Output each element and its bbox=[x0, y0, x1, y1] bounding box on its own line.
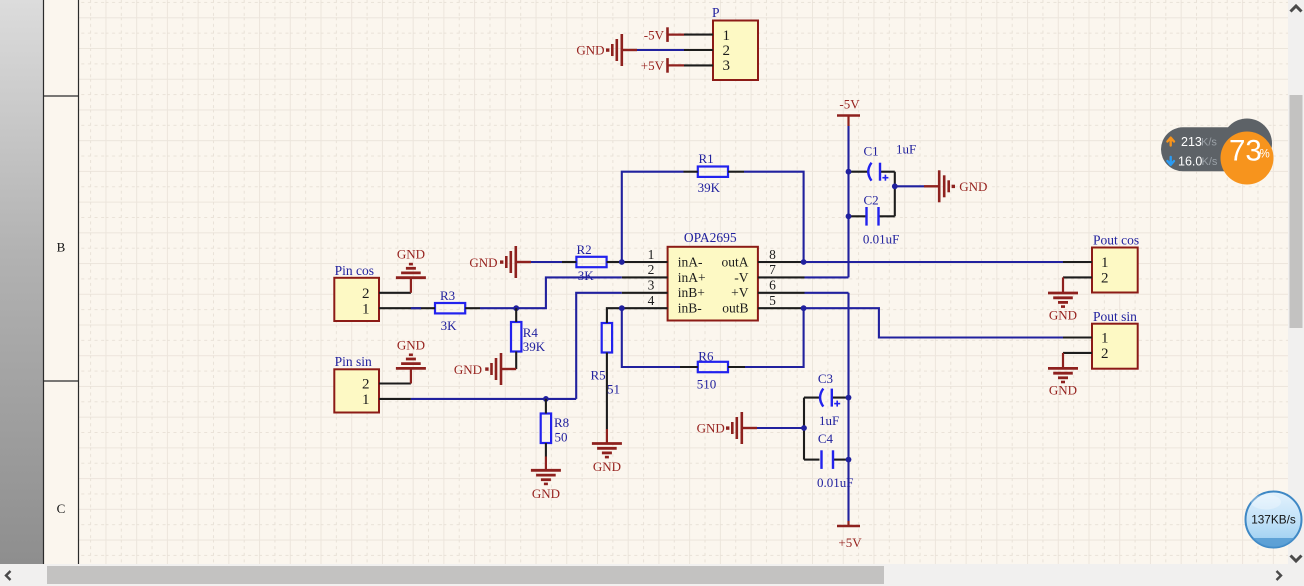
svg-text:-V: -V bbox=[734, 270, 748, 285]
junction outA node bbox=[801, 259, 807, 265]
svg-text:51: 51 bbox=[607, 382, 620, 397]
svg-text:Pout cos: Pout cos bbox=[1093, 233, 1139, 248]
op-amp U1 OPA2695 body bbox=[668, 247, 758, 321]
power -5V (connector P pin 1) bbox=[666, 27, 669, 42]
svg-text:R5: R5 bbox=[591, 367, 606, 382]
svg-text:3: 3 bbox=[723, 58, 731, 74]
svg-text:50: 50 bbox=[555, 429, 568, 444]
svg-text:inA+: inA+ bbox=[678, 270, 706, 285]
horizontal scrollbar bbox=[0, 564, 1304, 586]
svg-text:2: 2 bbox=[648, 262, 655, 277]
pill upload row bbox=[1167, 138, 1174, 146]
svg-text:137KB/s: 137KB/s bbox=[1251, 513, 1296, 527]
op-amp U1 right pin leads bbox=[758, 261, 804, 263]
power +5V (connector P pin 3) bbox=[666, 58, 669, 73]
wire -V to -5V rail bbox=[805, 126, 849, 277]
Pout cos pin leads bbox=[1063, 261, 1092, 263]
svg-text:6: 6 bbox=[769, 278, 776, 293]
junction C1/C2 gnd bbox=[892, 183, 898, 189]
junction outB node bbox=[801, 305, 807, 311]
svg-text:3: 3 bbox=[648, 278, 655, 293]
svg-text:1: 1 bbox=[1101, 255, 1109, 271]
svg-text:213: 213 bbox=[1181, 135, 1202, 149]
svg-text:+5V: +5V bbox=[641, 58, 665, 73]
svg-text:R4: R4 bbox=[523, 325, 539, 340]
svg-text:GND: GND bbox=[532, 486, 560, 501]
svg-text:-5V: -5V bbox=[644, 27, 665, 42]
svg-text:2: 2 bbox=[362, 286, 370, 302]
svg-text:OPA2695: OPA2695 bbox=[684, 230, 737, 245]
svg-text:GND: GND bbox=[593, 459, 621, 474]
svg-text:P: P bbox=[712, 5, 720, 20]
ground GND below Pout cos bbox=[1062, 277, 1064, 293]
svg-text:GND: GND bbox=[576, 43, 604, 58]
ground GND above Pin cos bbox=[410, 278, 412, 293]
svg-text:GND: GND bbox=[697, 421, 725, 436]
svg-text:1uF: 1uF bbox=[819, 413, 839, 428]
svg-text:C1: C1 bbox=[864, 143, 879, 158]
capacitor C3 bbox=[804, 397, 821, 399]
resistor R3 bbox=[435, 303, 465, 313]
Pout sin pin leads bbox=[1063, 336, 1092, 338]
svg-text:inA-: inA- bbox=[678, 254, 703, 269]
svg-text:16.0: 16.0 bbox=[1178, 155, 1202, 169]
svg-text:-5V: -5V bbox=[839, 97, 860, 112]
wire +V to +5V rail bbox=[805, 293, 849, 521]
pill download row bbox=[1167, 157, 1174, 165]
ground GND at R4 bbox=[501, 368, 516, 370]
svg-text:GND: GND bbox=[454, 362, 482, 377]
Pin cos pin leads bbox=[379, 292, 411, 294]
svg-text:Pin sin: Pin sin bbox=[335, 354, 372, 369]
capacitor C4 bbox=[803, 398, 805, 428]
sheet border bbox=[43, 0, 45, 564]
cpu percent orange circle 73% bbox=[1221, 132, 1274, 185]
svg-text:1: 1 bbox=[362, 392, 370, 408]
svg-text:1: 1 bbox=[1101, 331, 1109, 347]
wire GND to R2 bbox=[531, 261, 562, 263]
svg-text:outA: outA bbox=[722, 254, 749, 269]
svg-text:GND: GND bbox=[1049, 383, 1077, 398]
svg-text:R8: R8 bbox=[554, 415, 569, 430]
ground GND at C1/C2 bbox=[924, 185, 939, 187]
wire R6 to outB bbox=[745, 308, 804, 367]
network speed pill widget bbox=[1161, 127, 1249, 171]
download speed blue ball 137KB/s bbox=[1246, 492, 1302, 548]
junction C3/C4 gnd bbox=[801, 425, 807, 431]
svg-text:2: 2 bbox=[1101, 270, 1109, 286]
svg-text:39K: 39K bbox=[698, 180, 721, 195]
junction C1 rail bbox=[846, 169, 852, 175]
ground GND below R8 bbox=[545, 457, 547, 471]
svg-text:inB-: inB- bbox=[678, 301, 703, 316]
wire inA- to R1 left bbox=[622, 172, 684, 262]
svg-text:2: 2 bbox=[1101, 346, 1109, 362]
svg-text:510: 510 bbox=[697, 377, 717, 392]
wire caps to GND bbox=[895, 185, 924, 187]
svg-text:GND: GND bbox=[397, 338, 425, 353]
svg-text:1: 1 bbox=[362, 301, 370, 317]
resistor R5 bbox=[602, 323, 612, 353]
svg-text:GND: GND bbox=[1049, 307, 1077, 322]
svg-text:%: % bbox=[1260, 149, 1270, 161]
Pin sin pin leads bbox=[379, 382, 411, 384]
ground GND below Pout sin bbox=[1062, 353, 1064, 369]
svg-text:7: 7 bbox=[769, 262, 776, 277]
connector Pin sin bbox=[334, 369, 379, 412]
junction R8 node bbox=[543, 396, 549, 402]
svg-text:3K: 3K bbox=[441, 318, 458, 333]
vertical scrollbar bbox=[1288, 0, 1304, 564]
svg-text:GND: GND bbox=[397, 247, 425, 262]
svg-text:73: 73 bbox=[1229, 135, 1262, 168]
svg-text:4: 4 bbox=[648, 293, 655, 308]
svg-text:outB: outB bbox=[722, 301, 748, 316]
ground GND at R2 bbox=[516, 261, 531, 263]
wire Pin cos pin1 to R3 bbox=[411, 307, 421, 309]
svg-text:3K: 3K bbox=[578, 268, 595, 283]
svg-text:1uF: 1uF bbox=[896, 141, 916, 156]
power -5V (rail) bbox=[837, 114, 860, 117]
svg-text:R3: R3 bbox=[440, 288, 455, 303]
capacitor C2 bbox=[849, 215, 867, 217]
junction inA- node bbox=[619, 259, 625, 265]
svg-text:Pout sin: Pout sin bbox=[1093, 309, 1137, 324]
resistor R2 bbox=[576, 257, 606, 267]
svg-text:+V: +V bbox=[731, 285, 749, 300]
svg-text:C3: C3 bbox=[818, 371, 833, 386]
svg-text:R2: R2 bbox=[577, 242, 592, 257]
wire outB to Pout sin bbox=[804, 308, 1063, 337]
svg-text:R1: R1 bbox=[699, 151, 714, 166]
connector P bbox=[713, 21, 758, 81]
svg-text:C2: C2 bbox=[864, 192, 879, 207]
capacitor C1 bbox=[849, 171, 870, 173]
svg-text:5: 5 bbox=[769, 293, 776, 308]
wire outA to Pout cos bbox=[804, 261, 1063, 263]
connector Pin cos bbox=[334, 278, 379, 321]
ground GND (connector P pin 2) bbox=[622, 49, 637, 51]
resistor R6 bbox=[698, 362, 728, 372]
junction C3 rail bbox=[846, 395, 852, 401]
wire inB- to R6 bbox=[622, 308, 680, 367]
svg-text:2: 2 bbox=[723, 43, 731, 59]
op-amp U1 left pin leads bbox=[622, 261, 668, 263]
wire node to inA+ bbox=[516, 277, 622, 308]
svg-text:+5V: +5V bbox=[838, 535, 862, 550]
svg-text:8: 8 bbox=[769, 247, 776, 262]
svg-text:C: C bbox=[57, 501, 66, 516]
svg-text:1: 1 bbox=[723, 28, 731, 44]
svg-text:inB+: inB+ bbox=[678, 285, 705, 300]
wire R3 to node bbox=[480, 307, 516, 309]
wire GND to P pin 2 bbox=[637, 49, 684, 51]
svg-text:39K: 39K bbox=[523, 339, 546, 354]
svg-text:GND: GND bbox=[959, 179, 987, 194]
svg-text:K/s: K/s bbox=[1202, 156, 1218, 168]
svg-text:R6: R6 bbox=[698, 348, 714, 363]
ground GND above Pin sin bbox=[410, 368, 412, 383]
wire C3/C4 to GND bbox=[757, 427, 804, 429]
junction C2 rail bbox=[846, 213, 852, 219]
svg-text:1: 1 bbox=[648, 247, 655, 262]
junction C4 rail bbox=[846, 457, 852, 463]
svg-text:K/s: K/s bbox=[1201, 137, 1217, 149]
resistor R4 bbox=[511, 322, 521, 352]
svg-text:0.01uF: 0.01uF bbox=[863, 232, 899, 247]
ground GND at C3/C4 bbox=[742, 427, 757, 429]
svg-text:Pin cos: Pin cos bbox=[335, 263, 374, 278]
junction R3/R4 node bbox=[513, 305, 519, 311]
connector Pout sin bbox=[1092, 324, 1138, 369]
wire Pin sin pin1 to inB+ bbox=[411, 293, 622, 399]
resistor R8 bbox=[541, 414, 551, 444]
junction inB- node bbox=[619, 305, 625, 311]
workspace background strip bbox=[0, 0, 43, 564]
resistor R1 bbox=[698, 167, 728, 177]
svg-text:B: B bbox=[57, 240, 66, 255]
svg-text:0.01uF: 0.01uF bbox=[817, 475, 853, 490]
svg-text:2: 2 bbox=[362, 377, 370, 393]
ground GND below R5 bbox=[606, 429, 608, 444]
wire R1 right to outA bbox=[744, 172, 804, 262]
connector P pin leads bbox=[684, 34, 713, 36]
connector Pout cos bbox=[1092, 248, 1138, 293]
svg-text:GND: GND bbox=[469, 255, 497, 270]
power +5V (rail) bbox=[837, 525, 860, 528]
svg-text:C4: C4 bbox=[818, 431, 834, 446]
